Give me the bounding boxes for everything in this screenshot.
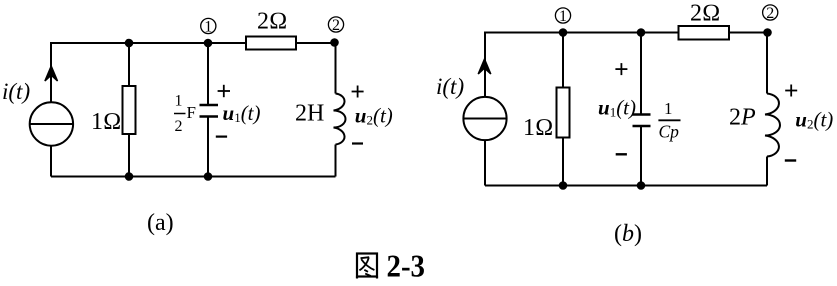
svg-text:1Ω: 1Ω (91, 109, 121, 135)
wire: circuit (a) left source branch lower (50, 145, 52, 177)
svg-text:2Ω: 2Ω (257, 9, 287, 35)
wire: circuit (b) left source branch lower (484, 139, 486, 186)
caption hanzi TU box (357, 254, 377, 279)
inductor 2P (b) coil (765, 94, 780, 157)
inductor 2H (a) coil (334, 94, 346, 145)
wire: circuit (a) left source branch upper (50, 42, 52, 103)
svg-text:(b): (b) (614, 221, 642, 247)
svg-text:i(t): i(t) (2, 79, 30, 104)
node dot (b) bottom of 1-ohm (559, 181, 568, 190)
label minus of u1 (a) (216, 136, 227, 138)
wire: circuit (a) 1-ohm branch lower (128, 133, 130, 177)
svg-text:u2(t): u2(t) (795, 108, 833, 132)
label minus of u2 (a) (352, 142, 363, 144)
current source I (b) arrowhead (478, 59, 491, 74)
svg-text:2: 2 (175, 118, 183, 135)
svg-text:1: 1 (559, 8, 567, 25)
svg-text:2: 2 (332, 17, 340, 34)
wire: circuit (b) 1-ohm branch lower (562, 137, 564, 186)
node label 2 circle (a) (328, 17, 343, 32)
svg-text:2: 2 (766, 5, 774, 22)
wire: circuit (b) bottom rail (485, 185, 767, 187)
node dot (b) node 2 (763, 28, 772, 37)
node dot (b) bottom of capacitor (637, 181, 646, 190)
node label 1 circle (b) (555, 8, 570, 23)
node label 2 circle (b) (763, 5, 778, 20)
resistor 1-ohm (b) body (557, 88, 570, 138)
label plus of u2 (b) (785, 85, 797, 97)
wire: circuit (a) top rail left segment (51, 42, 246, 44)
capacitor C (a) bottom plate (200, 115, 219, 117)
wire: circuit (a) inductor branch upper (335, 43, 337, 94)
svg-text:(a): (a) (147, 210, 174, 236)
svg-text:2Ω: 2Ω (690, 1, 720, 27)
node dot (a) bottom of 1-ohm (125, 172, 134, 181)
svg-text:u1(t): u1(t) (223, 101, 261, 125)
label 1/Cp bar (b) (658, 119, 680, 121)
current source I (b) diameter bar (463, 118, 506, 120)
label plus of u1 (a) (218, 85, 230, 97)
svg-text:1: 1 (175, 93, 183, 110)
node dot (a) bottom of capacitor (204, 172, 213, 181)
label minus of u1 (b) (616, 153, 627, 155)
wire: circuit (a) capacitor branch upper (207, 43, 209, 104)
svg-text:2-3: 2-3 (387, 249, 426, 282)
wire: circuit (b) left source branch upper (484, 32, 486, 99)
wire: circuit (a) capacitor branch lower (207, 118, 209, 177)
label 1/2 bar (a) (174, 113, 186, 115)
node label 1 circle (a) (201, 18, 216, 33)
current source I (a) arrowhead (45, 66, 58, 81)
node dot (a) node 1 (204, 39, 213, 48)
svg-text:1Ω: 1Ω (523, 115, 553, 141)
label plus of u1 (b) (615, 63, 627, 75)
wire: circuit (b) inductor branch lower (766, 157, 768, 186)
resistor 1-ohm (a) body (123, 86, 136, 134)
current source I (b) circle (463, 97, 506, 140)
svg-text:u2(t): u2(t) (355, 104, 393, 128)
resistor 2-ohm (b) body (679, 26, 730, 40)
wire: circuit (b) inductor branch upper (766, 33, 768, 94)
node dot (b) top of capacitor (637, 28, 646, 37)
current source I (a) circle (30, 102, 73, 145)
wire: circuit (b) capacitor branch lower (640, 127, 642, 186)
svg-text:F: F (187, 103, 196, 122)
node dot (b) node 1 (559, 28, 568, 37)
wire: circuit (a) bottom rail (51, 176, 336, 178)
label minus of u2 (b) (785, 159, 796, 161)
resistor 2-ohm (a) body (246, 37, 296, 50)
wire: circuit (b) capacitor branch upper (640, 33, 642, 114)
wire: circuit (a) top rail right segment to node 2 (296, 42, 336, 44)
wire: circuit (b) top rail right segment to node 2 (729, 32, 767, 34)
svg-text:1: 1 (664, 99, 673, 118)
wire: circuit (a) inductor branch lower (335, 145, 337, 177)
capacitor C (b) top plate (633, 113, 651, 115)
svg-text:u1(t): u1(t) (598, 96, 636, 120)
current source I (a) diameter bar (30, 123, 73, 125)
capacitor C (b) bottom plate (633, 125, 651, 127)
wire: circuit (b) top rail left segment (485, 32, 679, 34)
wire: circuit (b) 1-ohm branch upper (562, 33, 564, 89)
svg-text:i(t): i(t) (436, 74, 464, 99)
wire: circuit (a) 1-ohm branch upper (128, 43, 130, 87)
node dot (a) node 2 (330, 38, 339, 47)
capacitor C (a) top plate (200, 104, 219, 106)
node dot (a) top of 1-ohm (125, 39, 134, 48)
svg-text:Cp: Cp (659, 122, 680, 142)
label plus of u2 (a) (352, 86, 364, 98)
svg-text:1: 1 (204, 19, 212, 36)
svg-text:2H: 2H (295, 101, 324, 127)
svg-text:2P: 2P (729, 105, 756, 131)
